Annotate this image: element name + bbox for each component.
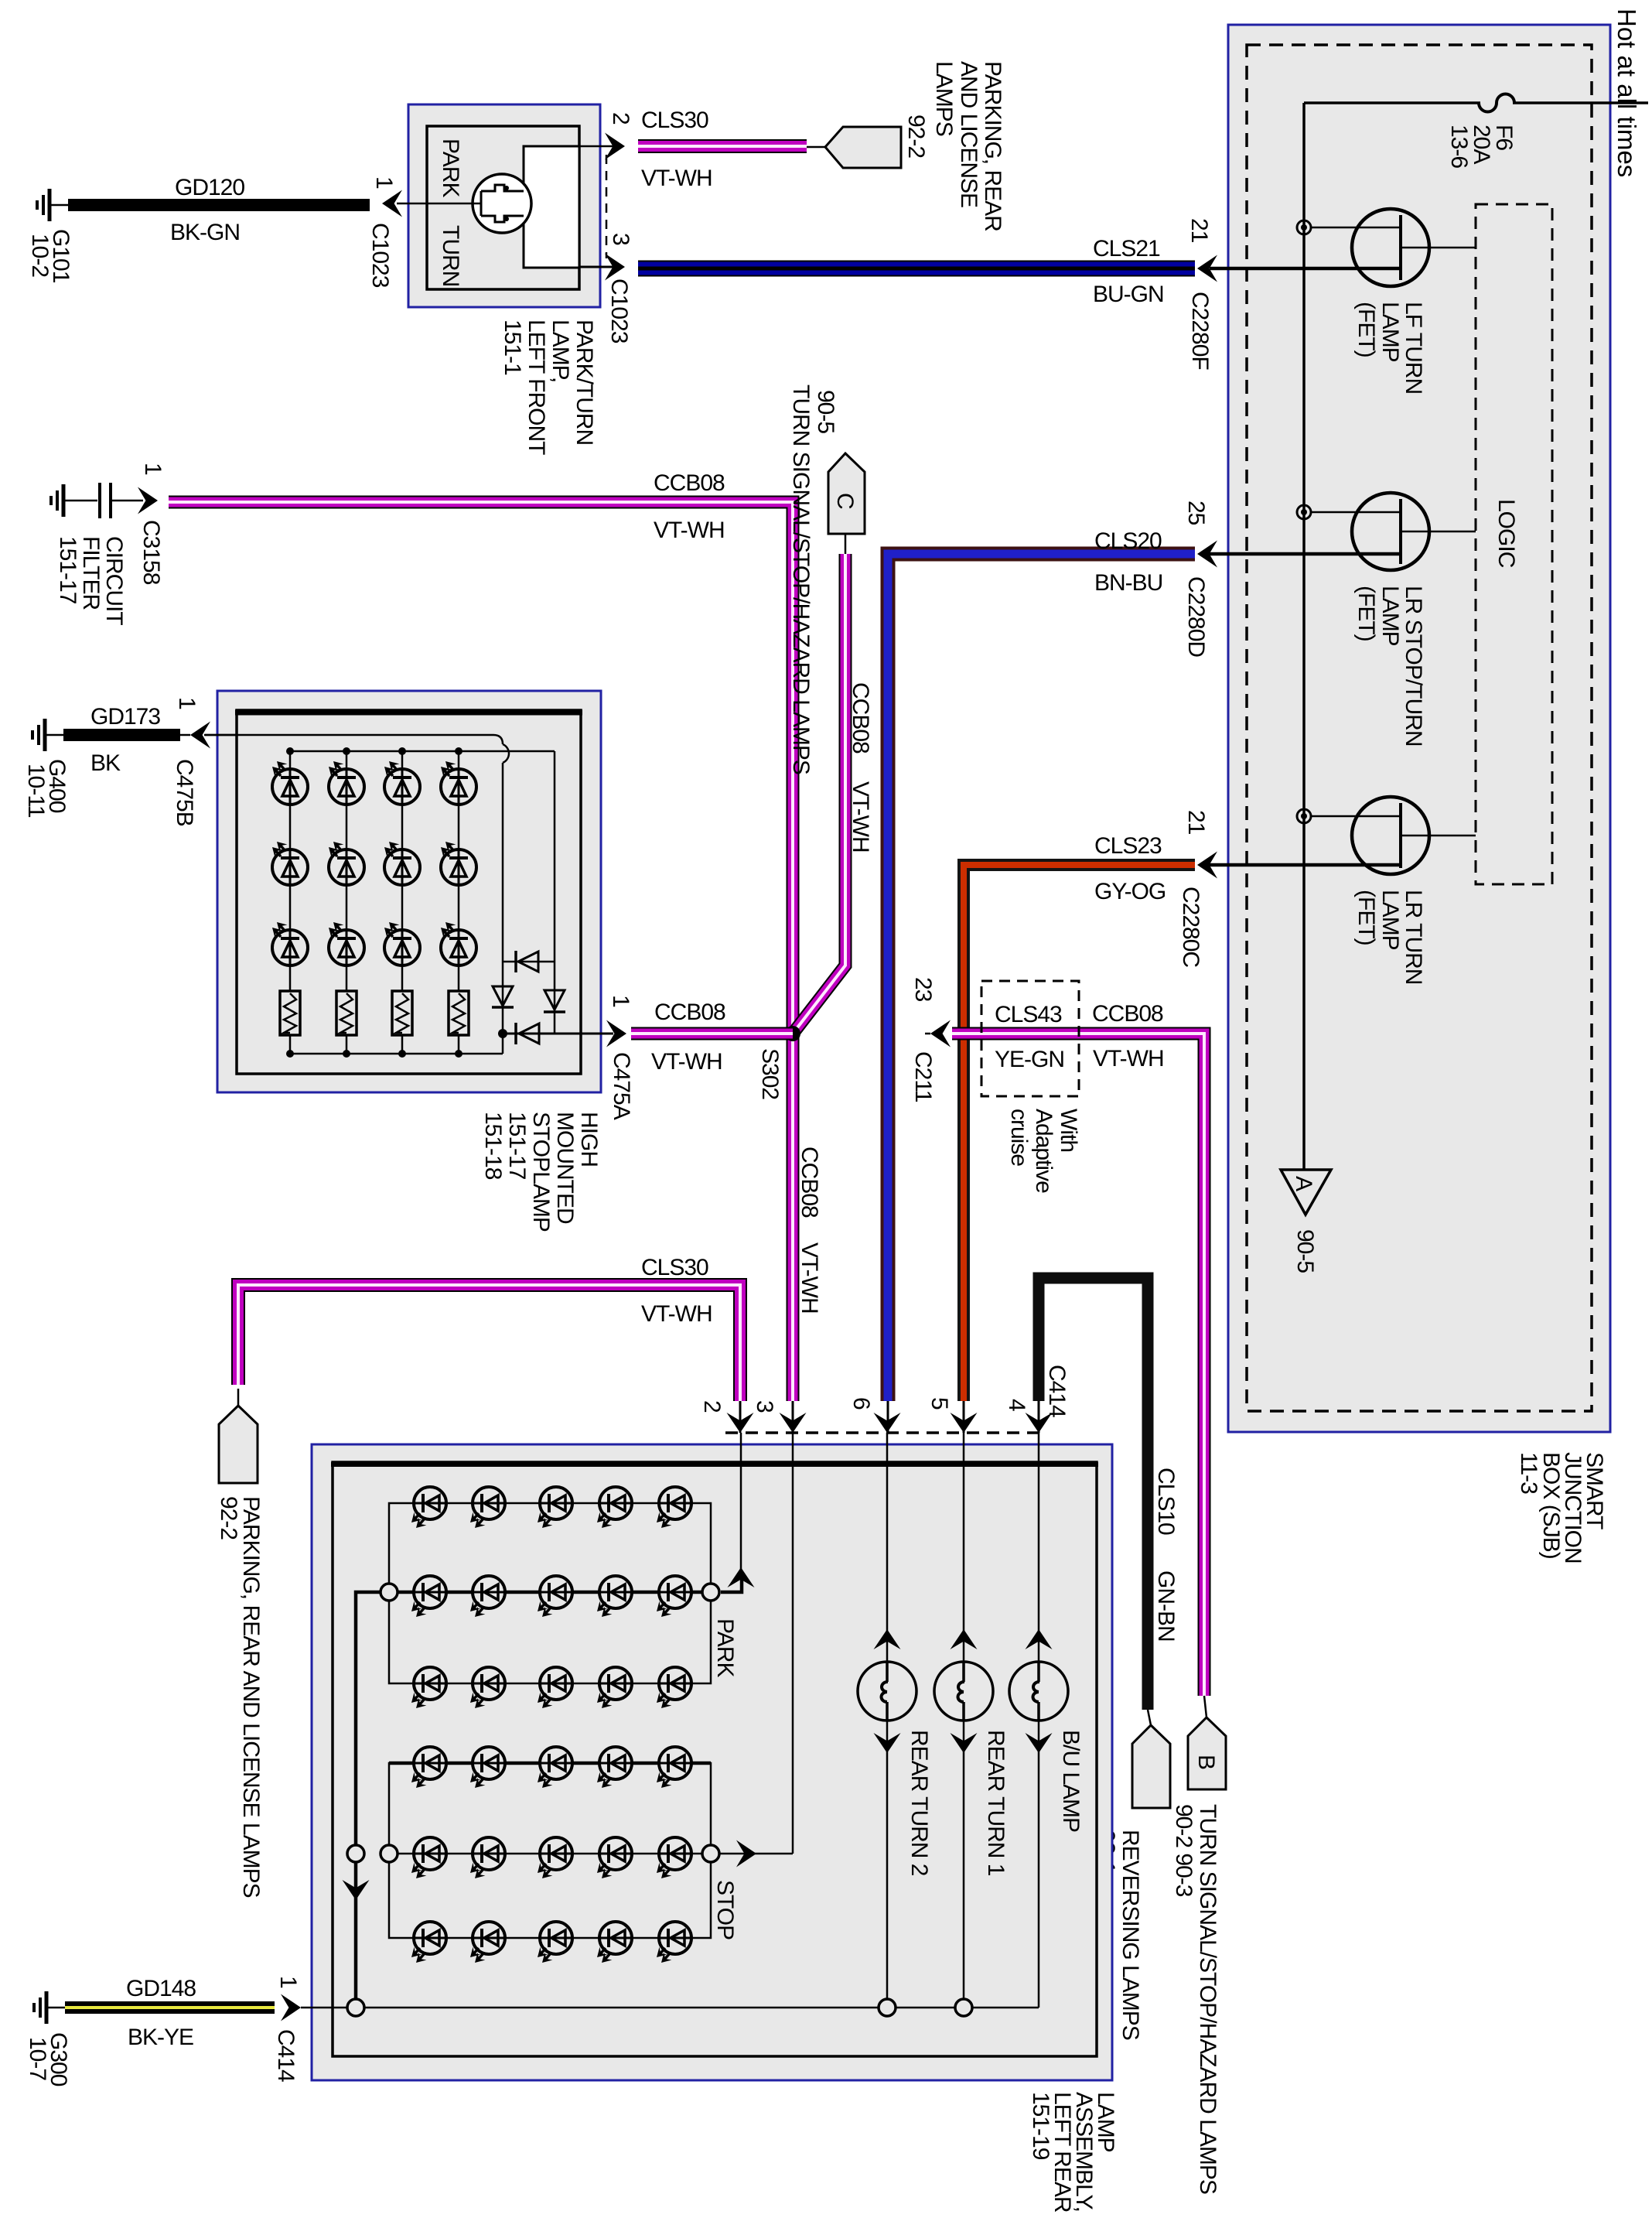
arrow bu down <box>1026 1733 1053 1753</box>
svg-text:GY-OG: GY-OG <box>1094 879 1166 904</box>
label CCB08 vertical <box>848 682 873 754</box>
LED park row2 1 <box>411 1576 446 1617</box>
LED stop row6 3 <box>538 1922 572 1963</box>
svg-text:LAMPS: LAMPS <box>931 61 957 136</box>
LED park row2 5 <box>657 1576 691 1617</box>
LED stop row5 1 <box>411 1837 446 1878</box>
LED park row3 1 <box>411 1667 446 1708</box>
diode D6 on left branch <box>492 986 514 1007</box>
label pin1 C414 <box>273 1976 301 2082</box>
label pin21 C2280C <box>1178 810 1209 967</box>
label YE-GN <box>995 1047 1064 1072</box>
LED stop row4 1 <box>411 1747 446 1788</box>
svg-text:BN-BU: BN-BU <box>1094 570 1162 596</box>
HMSL led column 1 wire <box>286 747 294 1058</box>
svg-text:CCB08: CCB08 <box>848 682 873 754</box>
wire park bus thick <box>389 1591 711 1594</box>
junction ring bus rt1 <box>955 1999 972 2016</box>
label CLS10 GN-BN <box>1153 1468 1179 1642</box>
wire stop feed to pin3 <box>719 1433 793 1854</box>
label CCB08 right <box>1092 1001 1163 1027</box>
svg-text:151-18: 151-18 <box>480 1112 506 1180</box>
label BK <box>90 750 121 776</box>
LED stop row5 4 <box>597 1837 632 1878</box>
label BN-BU <box>1094 570 1162 596</box>
wire rear turn 1 vertical <box>963 1433 965 2008</box>
svg-text:1: 1 <box>174 697 200 709</box>
wire park led loop <box>389 1503 711 1683</box>
LED D23 high mount <box>329 922 364 965</box>
wire GD148 BK-YE <box>65 2001 275 2014</box>
svg-text:BU-GN: BU-GN <box>1093 282 1164 307</box>
svg-text:11-3: 11-3 <box>1516 1452 1541 1494</box>
label B/U LAMP <box>1058 1730 1084 1832</box>
svg-text:Hot at all times: Hot at all times <box>1613 9 1641 177</box>
svg-text:PARKING, REAR AND LICENSE LAMP: PARKING, REAR AND LICENSE LAMPS <box>238 1496 264 1898</box>
svg-text:CLS30: CLS30 <box>641 108 708 133</box>
connector to parking rear license lamps <box>807 127 901 168</box>
svg-text:(FET): (FET) <box>1353 890 1379 945</box>
LED park row3 4 <box>597 1667 632 1708</box>
svg-text:VT-WH: VT-WH <box>848 781 873 853</box>
label CLS30 top <box>641 108 708 133</box>
LED D12 high mount <box>272 842 308 885</box>
label pin1 C475A <box>608 995 634 1120</box>
label GD173 <box>90 704 160 730</box>
label LF TURN LAMP (FET) <box>1353 302 1426 394</box>
svg-text:CIRCUIT: CIRCUIT <box>101 536 127 625</box>
label REVERSING LAMPS 93-1 <box>1094 1830 1143 2040</box>
label TURN <box>438 225 463 286</box>
svg-text:92-2: 92-2 <box>216 1496 241 1540</box>
wire CLS30 VT-WH lower <box>238 1285 740 1433</box>
svg-text:GD120: GD120 <box>175 175 244 200</box>
svg-text:LF TURN: LF TURN <box>1401 302 1426 394</box>
svg-text:LAMP,: LAMP, <box>548 320 573 382</box>
HMSL inner box <box>235 710 582 1074</box>
label CCB08 pin3 vertical <box>797 1147 822 1218</box>
label pin 6 <box>848 1397 874 1410</box>
svg-text:LR TURN: LR TURN <box>1401 890 1426 984</box>
terminal ring stop left <box>381 1845 398 1862</box>
pin 1 C3158 arrow <box>138 487 158 514</box>
label C414 top <box>1044 1365 1070 1417</box>
label CIRCUIT FILTER 151-17 <box>55 536 127 625</box>
pin 3 arrow down <box>780 1413 807 1433</box>
svg-text:1: 1 <box>608 995 633 1007</box>
terminal ring park right <box>702 1584 719 1601</box>
resistor R2 high mount <box>336 991 357 1035</box>
LED park row3 3 <box>538 1667 572 1708</box>
svg-text:LAMP: LAMP <box>1377 586 1403 646</box>
svg-text:VT-WH: VT-WH <box>1093 1046 1164 1071</box>
wire CLS23 GY-OG <box>964 865 1195 1433</box>
wire CCB08 VT-WH main <box>169 502 793 1433</box>
terminal ring return line <box>347 1845 364 1862</box>
LED D13 high mount <box>272 922 308 965</box>
svg-text:YE-GN: YE-GN <box>995 1047 1064 1072</box>
svg-text:GD148: GD148 <box>126 1976 196 2001</box>
pin 5 arrow down <box>951 1413 978 1433</box>
label VT-WH lower <box>641 1301 712 1327</box>
pin 1 C414 arrow <box>281 1994 301 2021</box>
svg-text:10-11: 10-11 <box>23 764 49 818</box>
label STOP inside <box>712 1880 738 1939</box>
label SMART JUNCTION BOX (SJB) 11-3 <box>1516 1452 1607 1563</box>
smart junction box SJB outline <box>1228 25 1610 1432</box>
LED park row3 5 <box>657 1667 691 1708</box>
svg-text:C414: C414 <box>1044 1365 1070 1417</box>
junction node FET2 drain <box>1297 505 1311 519</box>
svg-text:3: 3 <box>608 233 633 245</box>
svg-text:FILTER: FILTER <box>78 536 104 610</box>
pin 1 C475A arrow <box>606 1020 626 1047</box>
node Hot at all times label <box>1613 9 1641 177</box>
svg-text:GD173: GD173 <box>90 704 160 730</box>
svg-text:151-19: 151-19 <box>1028 2092 1053 2160</box>
svg-text:C3158: C3158 <box>138 520 164 585</box>
LED stop row6 5 <box>657 1922 691 1963</box>
label VT-WH vertical <box>848 781 873 853</box>
LED park row2 3 <box>538 1576 572 1617</box>
bulb REAR TURN 1 <box>934 1662 993 1721</box>
HMSL led column 3 wire <box>398 747 406 1058</box>
wire rear turn 2 vertical <box>886 1433 889 2008</box>
transistor LF TURN LAMP FET <box>1210 209 1476 286</box>
LED D33 high mount <box>384 922 420 965</box>
svg-text:REVERSING LAMPS: REVERSING LAMPS <box>1118 1830 1143 2040</box>
junction node FET1 drain <box>1297 220 1311 234</box>
wire pin3 internal <box>579 266 613 268</box>
label pin 2 lower <box>699 1400 725 1413</box>
diode D7 on right branch <box>544 990 565 1012</box>
svg-text:CLS20: CLS20 <box>1094 528 1162 554</box>
LED stop row4 2 <box>470 1747 505 1788</box>
connector parking lamps pentagon lower <box>219 1389 258 1483</box>
pin 21 C2280C arrow <box>1197 852 1220 879</box>
label CCB08 left <box>654 1000 725 1025</box>
svg-text:PARK/TURN: PARK/TURN <box>572 320 597 445</box>
wire pin2 internal <box>579 145 613 148</box>
svg-text:B: B <box>1193 1755 1219 1769</box>
wire ground bus bottom <box>301 2007 1039 2009</box>
LED stop row6 4 <box>597 1922 632 1963</box>
LED D22 high mount <box>329 842 364 885</box>
junction ring bus return <box>347 1999 364 2016</box>
svg-text:MOUNTED: MOUNTED <box>552 1112 578 1224</box>
wire hot feed to fuse <box>1513 101 1648 104</box>
svg-text:4: 4 <box>1004 1399 1029 1411</box>
wire fuse to bus <box>1304 101 1480 104</box>
fuse label F6 20A 13-6 <box>1446 125 1517 168</box>
LED stop row4 5 <box>657 1747 691 1788</box>
lamp assembly inner box <box>331 1462 1098 2056</box>
LED park row1 4 <box>597 1487 632 1528</box>
svg-text:AND LICENSE: AND LICENSE <box>956 61 981 207</box>
svg-text:2: 2 <box>608 112 633 125</box>
svg-text:REAR TURN 1: REAR TURN 1 <box>983 1730 1009 1876</box>
wire stop led loop <box>389 1763 711 1938</box>
svg-text:CCB08: CCB08 <box>1092 1001 1163 1027</box>
wire CCB08 splice to right <box>952 1034 1204 1696</box>
pin 3 arrow <box>605 254 625 281</box>
label CLS20 <box>1094 528 1162 554</box>
svg-text:VT-WH: VT-WH <box>654 518 725 543</box>
pin 1 C475B arrow <box>180 722 237 749</box>
svg-text:CLS30: CLS30 <box>641 1255 708 1280</box>
svg-text:GN-BN: GN-BN <box>1153 1570 1179 1642</box>
label LR STOP/TURN LAMP (FET) <box>1353 586 1426 746</box>
svg-text:REAR TURN 2: REAR TURN 2 <box>906 1730 932 1876</box>
resistor R3 high mount <box>392 991 412 1035</box>
LED park row3 2 <box>470 1667 505 1708</box>
label PARKING REAR AND LICENSE LAMPS 92-2 <box>903 61 1005 231</box>
park/turn lamp internal connector body <box>524 146 579 268</box>
label PARK/TURN LAMP LEFT FRONT 151-1 <box>500 320 597 455</box>
connector A triangle <box>1281 1170 1331 1215</box>
svg-text:PARKING, REAR: PARKING, REAR <box>980 61 1005 231</box>
arrow rt2 down <box>874 1733 901 1753</box>
svg-text:LAMP: LAMP <box>1377 302 1403 362</box>
label LR TURN LAMP (FET) <box>1353 890 1426 984</box>
connector C414 dashed line <box>725 1431 1040 1434</box>
connector REVERSING LAMPS pentagon <box>1132 1710 1170 1808</box>
label REAR TURN 1 <box>983 1730 1009 1876</box>
label G300 10-7 <box>25 2032 71 2086</box>
transistor LR TURN LAMP FET <box>1210 797 1476 874</box>
LED stop row4 3 <box>538 1747 572 1788</box>
LED park row1 1 <box>411 1487 446 1528</box>
wire b/u lamp vertical <box>1038 1433 1040 2008</box>
svg-text:10-2: 10-2 <box>27 234 53 277</box>
svg-text:151-17: 151-17 <box>504 1112 530 1180</box>
svg-text:PARK: PARK <box>438 138 463 197</box>
label S302 <box>757 1048 783 1099</box>
LED D43 high mount <box>441 922 476 965</box>
svg-text:CLS21: CLS21 <box>1093 236 1160 261</box>
svg-text:C475B: C475B <box>172 759 197 826</box>
svg-text:2: 2 <box>699 1400 725 1413</box>
label REAR TURN 2 <box>906 1730 932 1876</box>
arrow stop feed right <box>736 1840 756 1868</box>
LOGIC label <box>1493 499 1519 568</box>
svg-text:STOP: STOP <box>712 1880 738 1939</box>
svg-text:1: 1 <box>371 176 397 189</box>
svg-text:cruise: cruise <box>1006 1109 1032 1166</box>
connector B pentagon <box>1188 1696 1226 1789</box>
svg-text:CCB08: CCB08 <box>654 1000 725 1025</box>
HMSL led column 2 wire <box>343 747 350 1058</box>
wire stop row5 <box>389 1853 711 1855</box>
wire SJB internal bus <box>1302 103 1306 1170</box>
svg-text:C2280F: C2280F <box>1187 292 1213 370</box>
svg-text:1: 1 <box>275 1976 301 1988</box>
arrow bu up <box>1026 1629 1053 1649</box>
svg-text:3: 3 <box>752 1400 777 1413</box>
pin 1 C1023 arrow <box>382 190 402 217</box>
label pin23 C211 <box>910 977 936 1102</box>
svg-text:STOPLAMP: STOPLAMP <box>528 1112 554 1232</box>
svg-text:C2280D: C2280D <box>1183 576 1209 657</box>
fuse F6 20A <box>1479 94 1514 112</box>
LED park row1 5 <box>657 1487 691 1528</box>
arrow park return down <box>343 1880 370 1900</box>
svg-text:C: C <box>832 493 858 509</box>
label BK-GN <box>170 220 240 245</box>
ground circuit filter <box>51 484 97 517</box>
LED D32 high mount <box>384 842 420 885</box>
svg-text:CCB08: CCB08 <box>654 470 725 496</box>
svg-text:VT-WH: VT-WH <box>641 166 712 191</box>
label C1023 right <box>606 279 632 343</box>
park/turn lamp left front box <box>408 104 600 307</box>
label C1023 left <box>367 223 393 288</box>
wire HMSL bottom rail <box>290 1053 503 1055</box>
pin 2 arrow <box>605 133 625 160</box>
junction ring bus rt2 <box>879 1999 896 2016</box>
label pin 21 C2280F <box>1186 218 1213 370</box>
label PARK inside <box>712 1618 738 1677</box>
bulb park/turn dual filament <box>473 174 531 233</box>
label BU-GN <box>1093 282 1164 307</box>
LED D11 high mount <box>272 761 308 805</box>
svg-text:21: 21 <box>1186 218 1212 243</box>
label pin 4 <box>1004 1399 1029 1411</box>
svg-text:BK-YE: BK-YE <box>128 2025 193 2050</box>
label pin1 C3158 <box>138 463 166 585</box>
svg-text:BK-GN: BK-GN <box>170 220 240 245</box>
svg-text:C211: C211 <box>910 1051 936 1102</box>
bulb REAR TURN 2 <box>858 1662 916 1721</box>
svg-text:25: 25 <box>1183 501 1209 525</box>
pin 25 C2280D arrow <box>1197 541 1220 568</box>
label GY-OG <box>1094 879 1166 904</box>
box CLS43 adaptive cruise dashed <box>981 981 1079 1096</box>
label CLS21 <box>1093 236 1160 261</box>
wire HMSL led top rail <box>290 751 555 1034</box>
park/turn lamp inner box <box>427 126 579 289</box>
arrow park feed up <box>728 1567 755 1587</box>
LED park row1 3 <box>538 1487 572 1528</box>
label G101 10-2 <box>27 229 73 283</box>
svg-text:TURN SIGNAL/STOP/HAZARD LAMPS: TURN SIGNAL/STOP/HAZARD LAMPS <box>788 384 814 774</box>
label pin 2 <box>608 112 633 125</box>
LOGIC box <box>1476 204 1552 884</box>
svg-text:(FET): (FET) <box>1353 586 1379 641</box>
label 90-5 TURN SIGNAL/STOP/HAZARD LAMPS <box>788 384 838 774</box>
svg-text:(FET): (FET) <box>1353 302 1379 357</box>
label pin 3 <box>608 233 633 245</box>
arrow rt1 down <box>951 1733 978 1753</box>
capacitor circuit filter <box>100 483 143 518</box>
wire HMSL ground internal <box>205 735 509 1054</box>
pin 21 C2280F arrow <box>1197 255 1217 282</box>
wire pin1 internal <box>397 203 481 205</box>
LED stop row6 1 <box>411 1922 446 1963</box>
svg-text:6: 6 <box>848 1397 874 1410</box>
label CLS23 <box>1094 833 1162 859</box>
label CLS30 lower <box>641 1255 708 1280</box>
label pin 1 <box>371 176 397 189</box>
svg-text:92-2: 92-2 <box>903 114 929 158</box>
wire CLS20 BN-BU <box>888 554 1195 1433</box>
wire CLS21 BU-GN <box>638 261 1195 277</box>
wire CLS10 GN-BN <box>1039 1278 1148 1710</box>
diode D8 output <box>503 1023 613 1044</box>
label GD120 <box>175 175 244 200</box>
LED stop row5 5 <box>657 1837 691 1878</box>
label LAMP ASSEMBLY LEFT REAR 151-19 <box>1028 2092 1118 2213</box>
label VT-WH top2 <box>654 518 725 543</box>
svg-text:C475A: C475A <box>609 1052 634 1120</box>
svg-text:151-17: 151-17 <box>55 536 80 604</box>
pin 2 arrow down <box>727 1413 754 1433</box>
svg-text:VT-WH: VT-WH <box>641 1301 712 1327</box>
svg-text:C1023: C1023 <box>367 223 393 288</box>
svg-text:90-5: 90-5 <box>813 390 838 433</box>
HMSL led column 4 wire <box>455 747 462 1058</box>
splice S302 <box>785 1026 800 1041</box>
junction node FET3 drain <box>1297 809 1311 823</box>
wire CCB08 from C to splice <box>793 554 845 1034</box>
svg-text:CLS43: CLS43 <box>995 1002 1062 1027</box>
svg-text:5: 5 <box>927 1397 952 1410</box>
LED stop row4 4 <box>597 1747 632 1788</box>
svg-text:PARK: PARK <box>712 1618 738 1677</box>
label B TURN SIGNAL/STOP/HAZARD LAMPS 90-2 90-3 <box>1171 1804 1220 2194</box>
ground G400 <box>32 719 63 751</box>
label VT-WH pin3 vertical <box>797 1242 822 1314</box>
svg-text:151-1: 151-1 <box>500 320 525 375</box>
SJB inner dashed boundary <box>1247 45 1592 1411</box>
svg-text:VT-WH: VT-WH <box>651 1049 722 1075</box>
label CCB08 top <box>654 470 725 496</box>
terminal ring stop right <box>702 1845 719 1862</box>
LED park row1 2 <box>470 1487 505 1528</box>
label VT-WH right <box>1093 1046 1164 1071</box>
wire park return <box>356 1592 381 1999</box>
LED D42 high mount <box>441 842 476 885</box>
LED D31 high mount <box>384 761 420 805</box>
svg-text:BK: BK <box>90 750 121 776</box>
transistor LR STOP/TURN LAMP FET <box>1210 493 1476 570</box>
wire park feed from pin2 <box>721 1433 742 1592</box>
label pin 3 lower <box>752 1400 777 1413</box>
svg-text:23: 23 <box>910 977 936 1002</box>
label pin1 C475B <box>172 697 200 826</box>
label CLS43 <box>995 1002 1062 1027</box>
svg-text:B/U LAMP: B/U LAMP <box>1058 1730 1084 1832</box>
svg-text:90-2 90-3: 90-2 90-3 <box>1171 1804 1196 1897</box>
svg-text:CLS23: CLS23 <box>1094 833 1162 859</box>
wire GD120 <box>68 199 370 211</box>
label pin25 C2280D <box>1183 501 1209 657</box>
label BK-YE <box>128 2025 193 2050</box>
arrow rt1 up <box>951 1629 978 1649</box>
resistor R1 high mount <box>280 991 300 1035</box>
connector C pentagon <box>828 453 865 554</box>
label 90-5 below A <box>1292 1229 1318 1273</box>
connector C1023 dashed link <box>606 155 608 258</box>
svg-text:Adaptive: Adaptive <box>1031 1109 1056 1193</box>
svg-text:TURN SIGNAL/STOP/HAZARD LAMPS: TURN SIGNAL/STOP/HAZARD LAMPS <box>1195 1804 1220 2194</box>
label HIGH MOUNTED STOPLAMP 151-17 151-18 <box>480 1112 602 1232</box>
svg-text:S302: S302 <box>757 1048 783 1099</box>
bulb B/U LAMP <box>1009 1662 1068 1721</box>
LED park row2 2 <box>470 1576 505 1617</box>
wire GD173 BK <box>63 729 180 741</box>
wire stop bus thick <box>389 1762 711 1765</box>
